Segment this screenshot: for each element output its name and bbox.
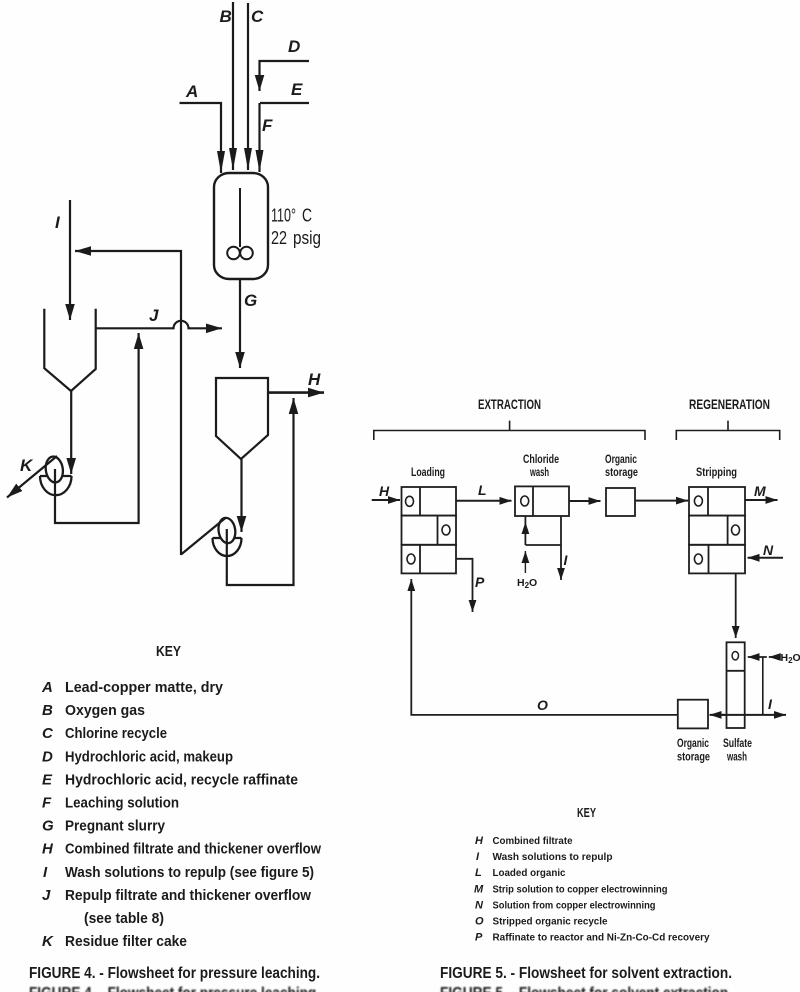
svg-text:J: J — [42, 887, 51, 904]
sulfate wash column — [727, 642, 745, 728]
svg-text:L: L — [475, 867, 482, 879]
wire stream L loaded organic — [456, 500, 512, 502]
wire chloride wash to organic storage — [569, 500, 601, 502]
wire H2O into sulfate wash (double arrowheads) — [769, 656, 781, 658]
svg-text:M: M — [754, 483, 766, 499]
svg-text:Loading: Loading — [411, 467, 445, 479]
svg-text:I: I — [476, 851, 480, 863]
svg-text:N: N — [475, 899, 484, 911]
wire organic storage to stripping — [635, 500, 688, 502]
mixer-settler stripping stage 2 — [689, 516, 745, 545]
organic storage tank 1 — [606, 488, 635, 516]
wire stream K residue cake out — [7, 456, 57, 498]
wire stream P raffinate out — [456, 559, 473, 612]
chloride wash lower stage — [525, 516, 561, 545]
svg-text:H: H — [308, 370, 321, 389]
svg-text:A: A — [185, 82, 198, 101]
svg-text:Leaching solution: Leaching solution — [65, 796, 179, 812]
svg-text:Hydrochloric acid, makeup: Hydrochloric acid, makeup — [65, 749, 233, 765]
svg-text:P: P — [475, 574, 485, 590]
svg-text:wash: wash — [726, 752, 747, 764]
svg-text:Repulp filtrate and thickener: Repulp filtrate and thickener overflow — [65, 888, 312, 904]
svg-text:Chloride: Chloride — [523, 454, 559, 466]
filter F2 drum — [217, 517, 237, 544]
svg-text:C: C — [42, 725, 54, 742]
wire stripping outlet down to sulfate wash — [735, 573, 737, 638]
svg-text:A: A — [41, 679, 53, 696]
svg-text:Combined filtrate and thickene: Combined filtrate and thickener overflow — [65, 842, 322, 858]
svg-text:Sulfate: Sulfate — [723, 738, 752, 750]
svg-text:J: J — [149, 306, 159, 325]
wire stream A feed — [180, 103, 222, 173]
svg-text:Combined filtrate: Combined filtrate — [493, 835, 573, 847]
svg-text:O: O — [537, 697, 548, 713]
svg-text:G: G — [244, 291, 257, 310]
wire stream E feed — [260, 102, 309, 104]
wire stream C into reactor — [247, 3, 249, 170]
svg-text:Oxygen gas: Oxygen gas — [65, 703, 145, 719]
svg-text:wash: wash — [529, 467, 549, 479]
svg-text:Lead-copper matte, dry: Lead-copper matte, dry — [65, 680, 223, 696]
svg-text:Pregnant slurry: Pregnant slurry — [65, 819, 165, 835]
svg-text:C: C — [302, 206, 312, 226]
mixer-settler stripping stage 1 — [689, 487, 745, 516]
svg-text:Chlorine recycle: Chlorine recycle — [65, 726, 167, 742]
wire stream B into reactor — [232, 2, 234, 170]
wire I branch vertical — [762, 657, 764, 715]
wire filter F2 filtrate loop to H — [227, 398, 294, 585]
wire stream G reactor outlet — [239, 279, 241, 368]
svg-text:O: O — [475, 916, 484, 928]
svg-text:K: K — [20, 456, 34, 475]
svg-text:FIGURE 4. - Flowsheet for pres: FIGURE 4. - Flowsheet for pressure leach… — [29, 985, 320, 992]
svg-text:Organic: Organic — [605, 454, 637, 466]
filter F1 drum — [44, 455, 64, 483]
agitator impeller — [227, 247, 240, 260]
svg-text:I: I — [564, 552, 569, 568]
wire stream I wash solution out — [560, 545, 562, 580]
thickener T2 (closed top) — [216, 378, 268, 459]
svg-text:H2O: H2O — [781, 652, 800, 665]
svg-text:22: 22 — [271, 228, 287, 248]
wire thickener T1 underflow — [70, 391, 72, 474]
svg-text:Loaded organic: Loaded organic — [493, 867, 566, 879]
svg-text:C: C — [251, 7, 264, 26]
wire stream H feed to loading — [372, 499, 400, 501]
svg-text:110°: 110° — [271, 206, 296, 226]
svg-text:EXTRACTION: EXTRACTION — [478, 396, 541, 412]
svg-text:H2O: H2O — [517, 577, 537, 590]
wire into filter F2 from recycle line — [181, 518, 226, 555]
svg-text:B: B — [42, 702, 53, 719]
wire H2O wash water in (up arrowheads) — [524, 522, 526, 534]
wire stream I repulp feed — [69, 200, 71, 320]
svg-text:KEY: KEY — [156, 643, 181, 660]
wire stream H combined filtrate out — [268, 391, 324, 394]
filter F2 rim — [213, 537, 242, 539]
svg-text:FIGURE 5. - Flowsheet for solv: FIGURE 5. - Flowsheet for solvent extrac… — [440, 965, 732, 982]
svg-text:FIGURE 5. - Flowsheet for solv: FIGURE 5. - Flowsheet for solvent extrac… — [440, 985, 732, 992]
svg-text:H: H — [42, 841, 54, 858]
svg-text:Organic: Organic — [677, 738, 709, 750]
svg-text:F: F — [262, 116, 273, 135]
svg-text:Wash solutions to repulp (see: Wash solutions to repulp (see figure 5) — [65, 865, 314, 881]
wire stream D feed — [260, 61, 310, 91]
mixer-settler loading stage 3 — [402, 545, 457, 574]
svg-text:H: H — [379, 483, 390, 499]
svg-text:F: F — [42, 795, 52, 812]
svg-text:E: E — [42, 771, 53, 788]
svg-text:L: L — [478, 482, 487, 498]
mixer-settler stripping stage 3 — [689, 545, 745, 574]
svg-text:REGENERATION: REGENERATION — [689, 396, 770, 412]
svg-text:Wash solutions to repulp: Wash solutions to repulp — [493, 851, 613, 863]
svg-text:psig: psig — [293, 228, 321, 248]
wire O into organic storage 2 — [710, 714, 727, 716]
svg-text:G: G — [42, 818, 54, 835]
svg-text:E: E — [291, 80, 303, 99]
wire filter F1 filtrate loop to J — [55, 333, 139, 523]
wire stream J with crossover hump — [96, 321, 222, 328]
svg-text:I: I — [55, 213, 61, 232]
svg-text:storage: storage — [605, 467, 638, 479]
wire sulfate wash bottom line with I out — [712, 714, 786, 716]
wire stream N spent electrolyte in — [748, 557, 784, 559]
wire thickener T2 underflow — [240, 459, 242, 532]
filter F1 cup — [40, 476, 72, 495]
filter F1 rim — [40, 475, 72, 477]
mixer-settler chloride wash stage — [515, 486, 569, 516]
svg-text:FIGURE 4. - Flowsheet for pres: FIGURE 4. - Flowsheet for pressure leach… — [29, 965, 320, 982]
organic storage tank 2 — [678, 700, 708, 729]
svg-text:Solution from copper electrowi: Solution from copper electrowinning — [493, 899, 656, 911]
reactor vessel — [214, 173, 268, 279]
wire stream O organic recycle return — [411, 579, 678, 715]
wire recycle to I (overflow return) — [75, 251, 181, 555]
svg-text:H: H — [475, 835, 484, 847]
svg-text:D: D — [288, 37, 300, 56]
svg-text:(see table 8): (see table 8) — [84, 911, 164, 927]
svg-text:B: B — [220, 7, 232, 26]
svg-text:K: K — [42, 933, 54, 950]
svg-text:I: I — [43, 864, 48, 881]
filter F2 cup — [213, 538, 242, 556]
agitator shaft — [239, 188, 241, 247]
svg-text:Hydrochloric acid, recycle raf: Hydrochloric acid, recycle raffinate — [65, 772, 298, 788]
thickener T1 (repulp, open top) — [44, 309, 95, 391]
svg-text:Raffinate to reactor and Ni-Zn: Raffinate to reactor and Ni-Zn-Co-Cd rec… — [493, 932, 710, 944]
svg-text:N: N — [763, 542, 774, 558]
svg-text:D: D — [42, 748, 53, 765]
svg-text:M: M — [474, 883, 484, 895]
svg-text:I: I — [768, 696, 773, 712]
svg-text:KEY: KEY — [577, 805, 596, 820]
wire stream F into reactor — [258, 103, 260, 172]
svg-text:Strip solution to copper elect: Strip solution to copper electrowinning — [493, 883, 668, 895]
svg-text:P: P — [475, 932, 483, 944]
regeneration section bracket — [676, 421, 779, 440]
extraction section bracket — [374, 421, 645, 440]
svg-text:storage: storage — [677, 752, 710, 764]
svg-text:Stripping: Stripping — [696, 467, 737, 479]
svg-text:Residue filter cake: Residue filter cake — [65, 934, 187, 950]
mixer-settler loading stage 1 — [402, 487, 457, 516]
wire stream M strip solution out — [745, 499, 778, 501]
mixer-settler loading stage 2 — [402, 516, 457, 545]
svg-text:Stripped organic recycle: Stripped organic recycle — [493, 916, 608, 928]
